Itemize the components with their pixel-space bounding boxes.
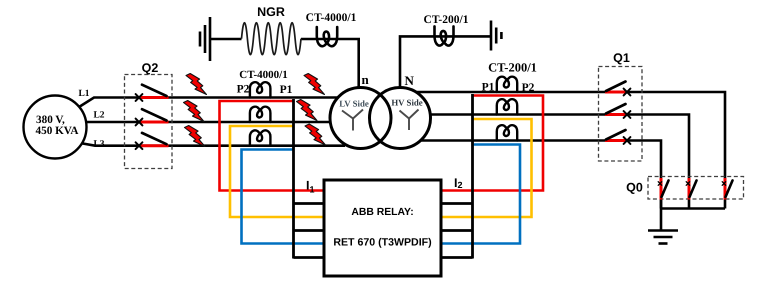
wire: LV neutral to NGR — [209, 39, 359, 88]
generator G (380 V, 450 KVA) — [24, 96, 87, 159]
CT CT-200/1 (neutral) — [435, 26, 454, 45]
breaker Q2 pole L3 — [136, 133, 169, 149]
CT CT-200/1 phase L2 — [497, 99, 517, 114]
CT CT-4000/1 phase L3 — [250, 130, 271, 145]
svg-text:P2: P2 — [522, 82, 535, 94]
svg-text:P1: P1 — [482, 82, 495, 94]
wire L1 (HV side) — [415, 92, 725, 209]
wire L1 (LV side) — [79, 98, 345, 108]
wire CT4 secondary (red, HV) — [441, 96, 543, 191]
breaker Q1 pole L3 — [605, 130, 630, 144]
svg-text:Q2: Q2 — [142, 61, 159, 75]
svg-text:Q0: Q0 — [626, 181, 643, 195]
wire CT3 secondary (blue, LV) — [242, 150, 325, 244]
fault bolt L1 (after Q2) — [186, 74, 207, 95]
svg-text:CT-4000/1: CT-4000/1 — [306, 12, 357, 24]
wire L2 (HV side) — [415, 115, 689, 209]
breaker Q0 pole L2 — [686, 178, 696, 200]
wire L3 (LV side) — [80, 143, 345, 146]
svg-text:n: n — [362, 72, 370, 87]
wire CT1 secondary (red, LV) — [220, 101, 325, 191]
svg-text:ABB RELAY:: ABB RELAY: — [351, 207, 413, 218]
fault bolt L2 (at LV bushing) — [297, 100, 318, 121]
svg-text:L1: L1 — [78, 89, 89, 99]
CT CT-4000/1 (neutral) — [317, 27, 337, 46]
CT CT-4000/1 phase L1 — [250, 82, 271, 97]
svg-text:N: N — [405, 73, 415, 88]
breaker Q2 (dashed box) — [125, 75, 173, 169]
bus: HV CT common return — [441, 94, 473, 259]
svg-text:I1: I1 — [306, 178, 315, 194]
svg-text:P1: P1 — [280, 84, 293, 96]
svg-text:RET 670 (T3WPDIF): RET 670 (T3WPDIF) — [333, 237, 431, 249]
svg-text:HV Side: HV Side — [391, 98, 422, 108]
svg-text:CT-200/1: CT-200/1 — [424, 14, 469, 26]
ground (Q0) — [648, 231, 678, 244]
ground (HV neutral) — [491, 21, 501, 51]
wire L3 (HV side) — [415, 141, 661, 209]
wire L2 (LV side) — [87, 121, 346, 124]
svg-text:CT-4000/1: CT-4000/1 — [239, 69, 288, 81]
CT CT-200/1 phase L1 — [497, 77, 517, 92]
relay U1 ABB RET 670 — [324, 180, 441, 276]
wire CT2 secondary (yellow, LV) — [230, 126, 324, 217]
fault bolt L1 (at LV bushing) — [304, 74, 325, 95]
breaker Q0 (dashed box) — [648, 177, 744, 200]
svg-text:LV Side: LV Side — [339, 99, 369, 109]
svg-text:P2: P2 — [237, 84, 250, 96]
wye symbol (LV) — [342, 110, 363, 131]
wire CT6 secondary (blue, HV) — [441, 145, 520, 244]
svg-text:NGR: NGR — [257, 5, 285, 19]
breaker Q1 pole L2 — [605, 104, 630, 118]
breaker Q2 pole L1 — [136, 85, 169, 101]
svg-text:CT-200/1: CT-200/1 — [488, 61, 537, 75]
svg-text:450 KVA: 450 KVA — [36, 125, 79, 137]
ground (NGR side) — [200, 17, 210, 61]
CT CT-200/1 phase L3 — [497, 125, 517, 140]
svg-text:I2: I2 — [454, 176, 463, 190]
svg-text:L2: L2 — [93, 111, 104, 121]
wire CT5 secondary (yellow, HV) — [441, 119, 532, 217]
breaker Q1 pole L1 — [605, 82, 630, 96]
fault bolt L3 (at LV bushing) — [305, 124, 326, 145]
bus: Q0 common — [661, 199, 725, 231]
transformer T1 (LV/HV overlapping circles) — [330, 88, 431, 149]
breaker Q0 pole L1 — [722, 178, 732, 200]
wye symbol (HV) — [400, 110, 419, 131]
fault bolt L3 (after Q2) — [185, 126, 206, 147]
fault bolt L2 (after Q2) — [184, 101, 205, 122]
svg-text:Q1: Q1 — [613, 51, 630, 65]
CT CT-4000/1 phase L2 — [250, 107, 271, 122]
breaker Q2 pole L2 — [136, 109, 169, 125]
breaker Q0 pole L3 — [658, 178, 668, 200]
bus: LV CT common return — [294, 99, 325, 259]
resistor NGR (coil) — [242, 23, 302, 55]
breaker Q1 (dashed box) — [599, 67, 643, 162]
wire: HV neutral to ground — [400, 36, 490, 88]
svg-text:L3: L3 — [93, 140, 104, 150]
